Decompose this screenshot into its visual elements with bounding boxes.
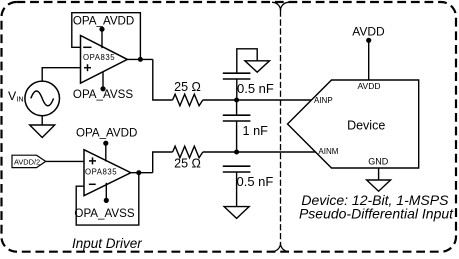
wire C3 to ground [236,172,238,207]
capacitor C1 0.5 nF (top) [223,73,251,79]
op-amp U2 (OPA835 bottom) [84,150,131,196]
device U3 (ADC) [288,80,419,168]
svg-text:AVDD/2: AVDD/2 [14,157,40,166]
svg-text:AINP: AINP [314,96,333,105]
U1 feedback wire (output to inverting input) [72,13,141,60]
wire C2 to AINM node [236,121,238,152]
U1 inverting input marker (-) [83,46,91,48]
svg-text:AINM: AINM [318,147,338,156]
svg-text:OPA835: OPA835 [83,53,115,62]
wire V_IN to ground [41,116,43,125]
wire AINP node to C2 [236,100,238,115]
U2 non-inverting input marker (+) [89,157,96,164]
U2 inverting input marker (-) [89,183,96,185]
wire U2 output up to R2 [153,152,173,173]
junction at U2 output [136,170,141,175]
wire U1 output down to R1 [153,59,173,100]
junction AINM node [234,150,239,155]
device GND pin wire [378,168,380,180]
node AINM wire to device [237,151,316,153]
svg-text:IN: IN [16,95,23,104]
ground (C3) [224,207,249,219]
U1 output wire [127,58,153,60]
source V_IN [25,81,60,116]
resistor R2 25 Ohm (bottom) [173,146,203,158]
svg-text:OPA835: OPA835 [85,167,117,176]
svg-text:GND: GND [368,157,389,167]
wire R2 to AINM node [203,151,237,153]
signal tag AVDD/2 [12,155,46,167]
svg-text:AVDD: AVDD [358,81,381,91]
capacitor C2 1 nF (middle) [223,115,251,121]
svg-text:Pseudo-Differential Input: Pseudo-Differential Input [299,205,454,221]
resistor R1 25 Ohm (top) [173,94,203,106]
label V_IN [8,89,24,103]
U1 positive supply pin [99,27,104,49]
wire AVDD/2 to U2 + input [46,160,84,162]
U2 positive supply pin [103,141,108,162]
wire R1 to AINP node [203,99,237,101]
svg-text:25 Ω: 25 Ω [174,80,201,94]
svg-text:OPA_AVDD: OPA_AVDD [76,127,137,140]
ground (device) [367,180,391,191]
device AVDD supply wire [368,41,370,81]
wire C1 top to ground [237,49,257,73]
wire V_IN to opamp + input [42,68,80,81]
U2 feedback wire (output to inverting input) [76,173,139,225]
svg-text:OPA_AVSS: OPA_AVSS [74,207,134,220]
node AINP wire to device [237,99,312,101]
svg-text:OPA_AVDD: OPA_AVDD [73,14,134,27]
svg-text:1 nF: 1 nF [243,124,269,138]
dot at AVDD [366,38,371,43]
svg-text:Device: Device [347,119,385,133]
U2 negative supply pin [104,183,109,203]
ground (V_IN) [30,125,55,138]
U1 non-inverting input marker (+) [84,64,91,71]
svg-text:25 Ω: 25 Ω [174,156,201,170]
svg-text:Input Driver: Input Driver [72,236,142,251]
ground (C1) [245,61,270,72]
capacitor C3 0.5 nF (bottom) [223,166,251,172]
section separator (dashed) [272,2,289,251]
wire C1 bottom to AINP node [236,79,238,100]
svg-text:0.5 nF: 0.5 nF [237,81,274,96]
junction at U1 output [138,57,143,62]
U1 negative supply pin [100,71,105,91]
svg-text:OPA_AVSS: OPA_AVSS [73,88,133,101]
U2 output wire [131,172,153,174]
op-amp U1 (OPA835 top) [81,36,128,84]
junction AINP node [234,98,239,103]
svg-text:AVDD: AVDD [352,24,385,38]
svg-text:0.5 nF: 0.5 nF [237,174,274,189]
